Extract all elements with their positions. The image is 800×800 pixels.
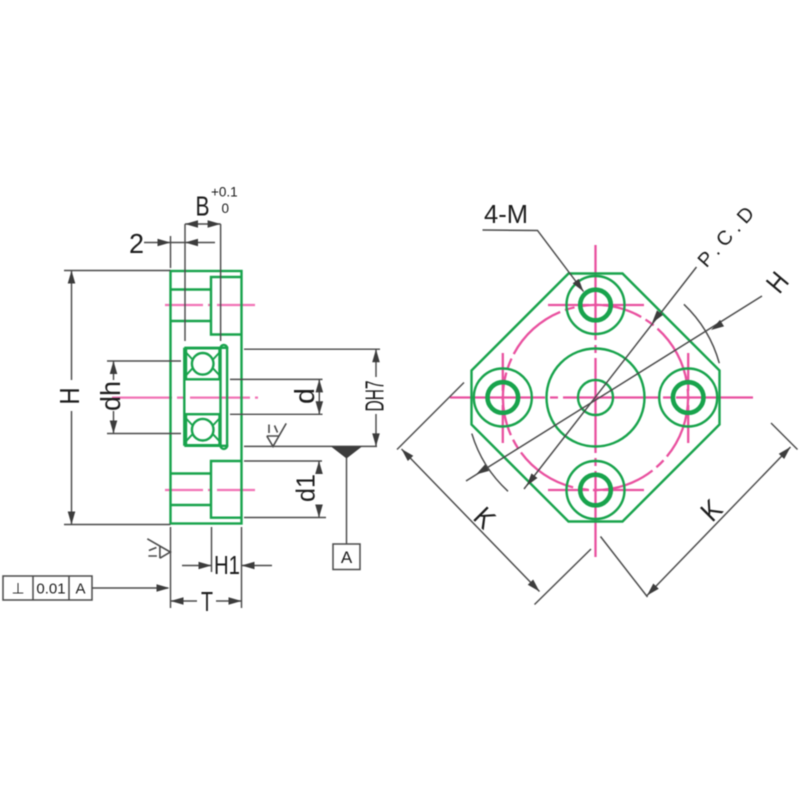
svg-text:0.01: 0.01 xyxy=(36,580,65,597)
svg-text:d1: d1 xyxy=(290,474,320,502)
right view arrowheads xyxy=(399,279,793,598)
bottom hole horizontal centerline xyxy=(548,489,644,491)
datum A triangle xyxy=(331,447,362,459)
B dimension line xyxy=(185,223,221,225)
horizontal centerline xyxy=(450,396,753,398)
d dimension line xyxy=(318,379,320,414)
top hole counterbore xyxy=(567,276,625,334)
bearing lower ball xyxy=(192,419,214,441)
bearing lower races xyxy=(186,418,220,441)
circlip xyxy=(221,345,228,449)
svg-text:DH7: DH7 xyxy=(359,381,389,412)
4-M leader xyxy=(483,230,584,292)
svg-text:+0.1: +0.1 xyxy=(211,185,238,200)
part outline rectangle xyxy=(171,271,242,524)
ext line x171 top xyxy=(170,236,172,268)
K right extension of lower-left edge xyxy=(601,537,648,598)
surface finish symbol on bore xyxy=(267,423,286,446)
right hole vertical centerline xyxy=(687,353,689,443)
svg-text:B: B xyxy=(196,191,210,222)
P.C.D circle xyxy=(503,305,688,490)
center boss circle xyxy=(547,349,645,447)
dim 2 line xyxy=(144,242,215,244)
H witness arc lower xyxy=(472,434,508,492)
d1 extension lines xyxy=(244,460,322,462)
bottom bolt through-hole xyxy=(171,472,212,474)
K left extension of lower-right edge xyxy=(535,549,592,605)
svg-text:A: A xyxy=(341,548,353,567)
DH7 extension lines xyxy=(244,348,380,350)
right hole thread xyxy=(673,382,704,413)
H witness arc upper xyxy=(684,304,719,363)
svg-text:dh: dh xyxy=(95,381,126,411)
left hole vertical centerline xyxy=(502,353,504,443)
bearing upper box xyxy=(186,348,220,379)
svg-text:2: 2 xyxy=(129,228,144,259)
left view arrowheads xyxy=(68,220,380,605)
datum A box xyxy=(333,544,360,570)
H1/T extension line right xyxy=(241,527,243,608)
FCF leader xyxy=(92,587,168,589)
top bolt through-hole xyxy=(171,288,212,290)
top hole horizontal centerline xyxy=(548,304,644,306)
T extension line left xyxy=(170,527,172,608)
left hole thread xyxy=(488,382,519,413)
K left extension of upper-left edge xyxy=(397,383,464,450)
bottom hole thread xyxy=(580,475,611,506)
center bore circle xyxy=(578,380,613,415)
left hole counterbore xyxy=(474,369,532,427)
DH7 dimension line xyxy=(375,349,377,377)
main bore centerline xyxy=(112,397,258,399)
svg-text:4-M: 4-M xyxy=(484,199,528,229)
K right extension of upper-right edge xyxy=(771,423,798,450)
K left dimension line xyxy=(402,449,540,592)
H1 dimension line xyxy=(182,565,212,567)
flange octagon outline xyxy=(472,274,720,522)
right hole counterbore xyxy=(659,369,717,427)
top bolt hole centerline xyxy=(165,304,256,306)
svg-text:T: T xyxy=(201,586,213,617)
svg-text:H1: H1 xyxy=(214,550,240,580)
dh extension lines xyxy=(107,360,181,362)
feature control frame xyxy=(3,576,92,600)
dh dimension line xyxy=(113,361,115,380)
top hole thread xyxy=(580,290,611,321)
svg-text:d: d xyxy=(289,388,320,404)
datum A stem xyxy=(346,458,348,544)
ext line x220.6 xyxy=(220,224,222,341)
H extension lines xyxy=(64,270,171,272)
H leader line xyxy=(466,296,762,481)
bearing lower box xyxy=(186,414,220,445)
bearing bore xyxy=(184,347,228,349)
vertical centerline xyxy=(594,245,596,557)
svg-text:A: A xyxy=(75,580,85,597)
ext line x185 xyxy=(184,224,186,341)
d1 dimension line xyxy=(318,461,320,474)
bottom bolt hole centerline xyxy=(165,489,256,491)
right view texts xyxy=(468,199,795,535)
top bolt counterbore xyxy=(211,277,242,335)
bearing upper races xyxy=(186,353,220,376)
bottom bolt counterbore xyxy=(211,461,242,518)
bearing upper ball xyxy=(192,353,214,375)
T dimension line xyxy=(171,600,198,602)
left view texts xyxy=(11,185,389,618)
P.C.D leader line xyxy=(524,267,697,489)
H1 extension line left xyxy=(211,527,213,572)
svg-text:0: 0 xyxy=(222,201,230,216)
bottom hole counterbore xyxy=(567,461,625,519)
svg-text:⊥: ⊥ xyxy=(11,580,24,597)
H dimension line xyxy=(71,271,73,381)
surface finish symbol on left face xyxy=(147,539,170,558)
svg-text:H: H xyxy=(54,388,85,405)
K right dimension line xyxy=(647,447,791,596)
d extension lines xyxy=(230,378,323,380)
